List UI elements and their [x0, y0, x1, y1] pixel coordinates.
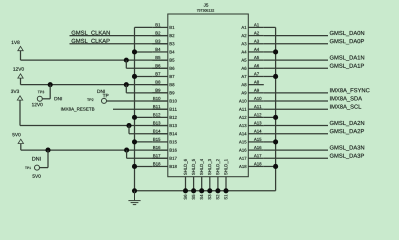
pin number A13 — [254, 121, 261, 124]
wire pin B4 to bus — [135, 51, 153, 53]
pin name A14 — [239, 132, 247, 135]
net label IMX8A_SCL — [330, 105, 361, 110]
label TP2 TP — [103, 94, 109, 97]
pin number S5 (rotated) — [192, 195, 195, 200]
pin name B18 — [170, 165, 177, 168]
pin name B4 — [170, 50, 175, 53]
pin B1 stub — [152, 26, 168, 28]
net label GMSL_DA3P — [330, 154, 364, 159]
junction SHLD_3 on bus — [207, 188, 212, 193]
wire GND right bus vertical — [275, 27, 277, 190]
pin name A17 — [239, 157, 246, 160]
wire A13 GMSL_DA2N — [264, 125, 328, 127]
wire 5V0 branch down — [126, 150, 128, 158]
pin name A11 — [239, 108, 246, 111]
pin SHLD_3 stub — [209, 177, 211, 191]
pin name B10 — [170, 100, 177, 103]
wire pin B1 to bus — [135, 26, 153, 28]
power symbol 3V3 — [11, 90, 23, 100]
pin B17 stub — [152, 157, 168, 159]
pin name A1 — [241, 26, 246, 29]
pin name A12 — [239, 116, 246, 119]
pin B10 stub — [152, 100, 168, 102]
pin SHLD_2 stub — [217, 177, 219, 191]
label TP3 DNI — [54, 97, 61, 100]
wire GND left bus vertical — [134, 27, 136, 190]
wire 12V0 branch down — [125, 85, 127, 93]
pin number A5 — [254, 56, 259, 59]
pin A16 stub — [248, 149, 263, 151]
pin A1 stub — [248, 26, 263, 28]
pin SHLD_1 stub — [225, 177, 227, 191]
wire pin A15 to bus — [264, 141, 276, 143]
pin number B12 — [153, 113, 160, 116]
wire 5V0 down — [20, 144, 22, 150]
pin name B11 — [170, 108, 177, 111]
pin name B7 — [170, 75, 175, 78]
net label GMSL_CLKAP — [72, 39, 110, 44]
pin name B2 — [170, 34, 175, 37]
pin name B5 — [170, 59, 175, 62]
junction SHLD_2 on bus — [215, 188, 220, 193]
wire A14 GMSL_DA2P — [264, 133, 328, 135]
wire pin A4 to bus — [264, 51, 276, 53]
pin number B4 — [156, 48, 161, 51]
pin number A7 — [254, 72, 259, 75]
pin number B3 — [156, 40, 161, 43]
pin number B5 — [156, 56, 161, 59]
junction B7 — [132, 74, 137, 79]
pin A18 stub — [248, 165, 263, 167]
label TP1 refdes — [25, 167, 31, 169]
pin SHLD_4 stub — [201, 177, 203, 191]
wire 5V0 to B17 — [127, 157, 168, 159]
pin A12 stub — [248, 116, 263, 118]
junction SHLD_6 on bus — [183, 188, 188, 193]
pin number A1 — [254, 23, 259, 26]
pin B6 stub — [152, 67, 168, 69]
pin number B9 — [156, 89, 161, 92]
wire TP2 to B10 — [107, 100, 168, 102]
test point TP3 — [37, 96, 42, 101]
wire 1V8 to B6 — [126, 67, 168, 69]
junction A4 — [273, 49, 278, 54]
pin name B12 — [170, 116, 177, 119]
wire pin B15 to bus — [135, 141, 153, 143]
wire A2 GMSL_DA0N — [264, 35, 328, 37]
junction B18 — [132, 164, 137, 169]
pin name A9 — [241, 91, 246, 94]
pin name A15 — [239, 140, 246, 143]
wire A9 IMX8A_FSYNC — [264, 92, 328, 94]
pin number S2 (rotated) — [216, 195, 219, 200]
label TP1 5V0 — [33, 174, 41, 177]
pin name SHLD_2 (rotated) — [216, 159, 220, 175]
pin A5 stub — [248, 59, 263, 61]
pin SHLD_5 stub — [193, 177, 195, 191]
junction SHLD_4 on bus — [199, 188, 204, 193]
wire pin B12 to bus — [135, 116, 153, 118]
pin name A10 — [239, 100, 246, 103]
label TP1 DNI — [32, 157, 40, 161]
pin number B10 — [153, 97, 160, 100]
net label GMSL_DA0P — [330, 39, 364, 44]
pin name B13 — [170, 124, 177, 127]
pin number A14 — [254, 130, 262, 133]
pin number B17 — [153, 154, 160, 157]
pin B13 stub — [152, 125, 168, 127]
refdes J5 — [204, 3, 209, 6]
power symbol 5V0 — [12, 133, 23, 144]
wire GND bottom bus — [135, 190, 276, 192]
junction SHLD_1 on bus — [223, 188, 228, 193]
wire 3V3 to B13 — [20, 125, 168, 127]
ground symbol — [128, 191, 140, 205]
pin number A17 — [254, 154, 261, 157]
pin A11 stub — [248, 108, 263, 110]
pin B4 stub — [152, 51, 168, 53]
pin name A2 — [241, 34, 246, 37]
pin A15 stub — [248, 141, 263, 143]
junction 12V0 branch — [124, 82, 129, 87]
pin number A10 — [254, 97, 261, 100]
wire 12V0 down — [20, 78, 22, 84]
pin A3 stub — [248, 43, 263, 45]
pin SHLD_6 stub — [185, 177, 187, 191]
net label IMX8A_RESETB — [61, 107, 94, 111]
junction B12 — [132, 115, 137, 120]
net label IMX8A_FSYNC — [330, 88, 370, 93]
wire TP3 drop — [42, 85, 50, 99]
wire GMSL_CLKAN to B2 — [70, 35, 168, 37]
label TP2 DNI — [97, 90, 104, 93]
wire 1V8 branch down — [125, 60, 127, 68]
wire GMSL_CLKAP to B3 — [70, 43, 168, 45]
pin number A12 — [254, 113, 261, 116]
net label GMSL_DA0N — [330, 31, 364, 36]
pin B16 stub — [152, 149, 168, 151]
pin name B1 — [170, 26, 175, 29]
wire A6 GMSL_DA1P — [264, 67, 328, 69]
pin number B16 — [153, 146, 160, 149]
net label GMSL_DA2N — [330, 121, 364, 126]
pin A14 stub — [248, 133, 263, 135]
net label GMSL_CLKAN — [72, 31, 110, 36]
pin number B11 — [153, 105, 160, 108]
power symbol 12V0 — [13, 67, 24, 78]
pin number B13 — [153, 121, 160, 124]
junction TP3 tap — [48, 82, 53, 87]
junction A12 — [273, 115, 278, 120]
pin name B14 — [170, 132, 177, 135]
pin B18 stub — [152, 165, 168, 167]
wire A3 GMSL_DA0P — [264, 43, 328, 45]
wire 5V0 to B16 — [21, 149, 168, 151]
pin B5 stub — [152, 59, 168, 61]
junction 3V3 branch — [126, 123, 131, 128]
pin number A15 — [254, 138, 261, 141]
pin A2 stub — [248, 35, 263, 37]
wire 1V8 to B5 — [21, 59, 168, 61]
net label GMSL_DA1P — [330, 64, 364, 69]
pin name B9 — [170, 91, 175, 94]
pin name A18 — [239, 165, 246, 168]
junction B15 — [132, 139, 137, 144]
junction B4 — [132, 49, 137, 54]
junction 5V0 branch — [124, 148, 129, 153]
wire pin A12 to bus — [264, 116, 276, 118]
pin B14 stub — [152, 133, 168, 135]
pin name B15 — [170, 140, 177, 143]
junction 1V8 branch — [124, 58, 129, 63]
pin name A13 — [239, 124, 246, 127]
pin name B3 — [170, 42, 175, 45]
pin name B16 — [170, 149, 177, 152]
pin number A9 — [254, 89, 259, 92]
pin A13 stub — [248, 125, 263, 127]
wire A16 GMSL_DA3N — [264, 149, 328, 151]
net label IMX8A_SDA — [330, 96, 362, 101]
pin number B8 — [156, 81, 161, 84]
pin A10 stub — [248, 100, 263, 102]
wire TP1 drop — [40, 150, 48, 168]
pin name SHLD_3 (rotated) — [208, 159, 212, 175]
wire A17 GMSL_DA3P — [264, 157, 328, 159]
junction TP1 tap — [45, 148, 50, 153]
pin B11 stub — [152, 108, 168, 110]
pin B15 stub — [152, 141, 168, 143]
pin A8 stub — [248, 84, 263, 86]
wire 3V3 down — [19, 100, 21, 125]
pin number A16 — [254, 146, 261, 149]
pin name A4 — [241, 50, 246, 53]
pin name SHLD_1 (rotated) — [224, 159, 228, 175]
pin name A16 — [239, 149, 246, 152]
wire IMX8A_RESETB to B11 — [113, 108, 168, 110]
pin name B6 — [170, 67, 175, 70]
pin number B15 — [153, 138, 160, 141]
pin number S6 (rotated) — [184, 195, 187, 200]
junction A15 — [273, 139, 278, 144]
junction SHLD_5 on bus — [191, 188, 196, 193]
wire 12V0 to B8 — [21, 84, 168, 86]
wire A10 IMX8A_SDA — [264, 100, 328, 102]
net label GMSL_DA3N — [330, 145, 364, 150]
pin name SHLD_4 (rotated) — [200, 159, 204, 175]
pin number A8 — [254, 81, 259, 84]
pin number A2 — [254, 31, 259, 34]
wire pin A1 to bus — [264, 26, 276, 28]
pin B12 stub — [152, 116, 168, 118]
pin number A4 — [254, 48, 259, 51]
label TP3 12V0 — [32, 103, 43, 106]
pin B7 stub — [152, 75, 168, 77]
test point TP1 — [35, 165, 40, 170]
pin number A6 — [254, 64, 259, 67]
label TP2 refdes — [87, 98, 93, 101]
wire pin B18 to bus — [135, 165, 153, 167]
junction A18 — [273, 164, 278, 169]
pin A17 stub — [248, 157, 263, 159]
pin number S3 (rotated) — [208, 195, 211, 200]
test point TP2 — [102, 98, 107, 103]
power symbol 1V8 — [12, 41, 24, 51]
pin number B14 — [153, 130, 160, 133]
pin name A6 — [241, 67, 246, 70]
pin name B17 — [170, 157, 177, 160]
pin number A18 — [254, 162, 261, 165]
pin B9 stub — [152, 92, 168, 94]
wire 3V3 to B14 — [129, 133, 168, 135]
junction A7 — [273, 74, 278, 79]
wire pin A7 to bus — [264, 75, 276, 77]
pin number B18 — [153, 162, 160, 165]
pin number S1 (rotated) — [224, 195, 227, 200]
connector J5 body — [168, 14, 249, 177]
pin number B7 — [156, 72, 161, 75]
wire 3V3 branch down — [128, 126, 130, 134]
pin A9 stub — [248, 92, 263, 94]
wire 1V8 down — [20, 51, 22, 60]
pin number S4 (rotated) — [200, 195, 203, 200]
junction bus-left — [132, 188, 137, 193]
pin name B8 — [170, 83, 175, 86]
net label GMSL_DA2P — [330, 129, 364, 134]
pin name A3 — [241, 42, 246, 45]
pin A4 stub — [248, 51, 263, 53]
pin name A8 — [241, 83, 246, 86]
wire pin B7 to bus — [135, 75, 153, 77]
pin number B1 — [156, 23, 161, 26]
wire pin A18 to bus — [264, 165, 276, 167]
pin name A5 — [241, 59, 246, 62]
pin B8 stub — [152, 84, 168, 86]
pin name A7 — [241, 75, 246, 78]
pin name SHLD_6 (rotated) — [184, 159, 188, 175]
pin A7 stub — [248, 75, 263, 77]
pin A6 stub — [248, 67, 263, 69]
pin B3 stub — [152, 43, 168, 45]
pin number B2 — [156, 31, 161, 34]
wire 12V0 to B9 — [126, 92, 168, 94]
pin number A3 — [254, 40, 259, 43]
net label GMSL_DA1N — [330, 55, 364, 60]
label TP3 — [38, 91, 44, 94]
pin name SHLD_5 (rotated) — [192, 159, 196, 175]
pin number A11 — [254, 105, 261, 108]
wire A11 IMX8A_SCL — [264, 108, 328, 110]
value 75T30E132 — [197, 9, 214, 11]
pin B2 stub — [152, 35, 168, 37]
wire A5 GMSL_DA1N — [264, 59, 328, 61]
pin number B6 — [156, 64, 161, 67]
